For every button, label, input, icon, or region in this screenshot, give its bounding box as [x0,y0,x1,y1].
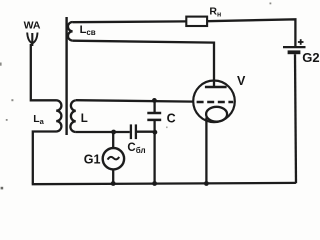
junction cathode-rail [204,181,209,186]
inductor Lsv (feedback coil) [68,22,73,41]
inductor La (antenna coil) [56,100,61,131]
anode plate [205,86,227,89]
bottom rail wire [32,183,296,184]
wire L bottom to Cbl [76,131,130,133]
transformer core [65,17,67,135]
wire cathode to bottom rail [205,118,207,184]
grid (dashed) [197,101,234,104]
triode V [193,81,235,123]
wire G1 bottom lead [112,170,114,184]
svg-text:V: V [237,74,246,88]
battery G2 [283,47,306,52]
svg-text:C: C [167,111,176,125]
svg-text:G1: G1 [84,153,101,167]
junction G1-rail [111,181,116,186]
capacitor C [147,113,161,120]
inductor L (grid coil) [70,100,75,132]
junction Cbl-C branch [153,130,158,135]
junction C-rail [152,181,157,186]
wire C bottom to bottom rail [153,120,155,183]
cathode [206,107,227,122]
wire grid line to C top [153,100,155,112]
scan specks (noise) [0,3,271,190]
wire battery minus to bottom rail [295,54,296,183]
wire Lsv bottom to anode of V [73,41,214,87]
wire resistor to battery G2 plus terminal [207,19,295,46]
capacitor Cbl (blocking) [131,124,136,139]
wire La bottom to bottom rail [33,132,57,184]
plus sign [298,39,304,45]
svg-text:WA: WA [24,19,41,31]
resistor Rn [186,17,207,26]
wire L top to grid of V [76,100,194,101]
generator G1 [103,148,124,169]
svg-text:G2: G2 [302,50,319,65]
envelope [193,81,235,123]
svg-text:L: L [81,113,88,125]
junction grid-C [152,98,157,103]
wire Cbl to C branch [137,131,156,133]
antenna WA [27,33,37,47]
wire Lsv top to resistor Rn [73,20,187,23]
wire antenna to La top [31,44,57,100]
wire G1 top lead [112,132,114,148]
junction L-G1 [111,130,116,135]
